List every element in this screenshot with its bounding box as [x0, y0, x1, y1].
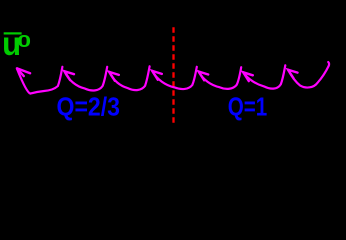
arrowhead of arc 3	[109, 72, 119, 81]
wire: arc 4 (crosses dashed line)	[152, 67, 197, 89]
wire: arc 1 (leftmost, deeper with steep tail)	[17, 67, 63, 94]
wire: arc 6	[243, 65, 285, 88]
wire: red dashed vertical boundary line	[172, 27, 174, 126]
svg-text:0: 0	[17, 31, 31, 51]
svg-text:Q=2/3: Q=2/3	[57, 93, 121, 121]
wire: arc 3	[109, 66, 149, 90]
svg-text:Q=1: Q=1	[228, 93, 268, 121]
arrowhead of arc 4	[152, 71, 162, 80]
arrowhead of arc 7	[288, 70, 298, 79]
wire: arc 5	[199, 67, 242, 89]
wire: arc 2	[64, 67, 107, 91]
label: green antiquark symbol u-bar overline	[4, 32, 22, 34]
arrowhead of arc 6	[243, 72, 253, 81]
arrowhead of arc 5	[199, 72, 209, 81]
wire: arc 7 (rightmost swoosh from curled start)	[288, 62, 329, 88]
arrowhead of arc 2	[64, 71, 74, 80]
arrowhead of arc 1 (larger)	[17, 68, 30, 76]
